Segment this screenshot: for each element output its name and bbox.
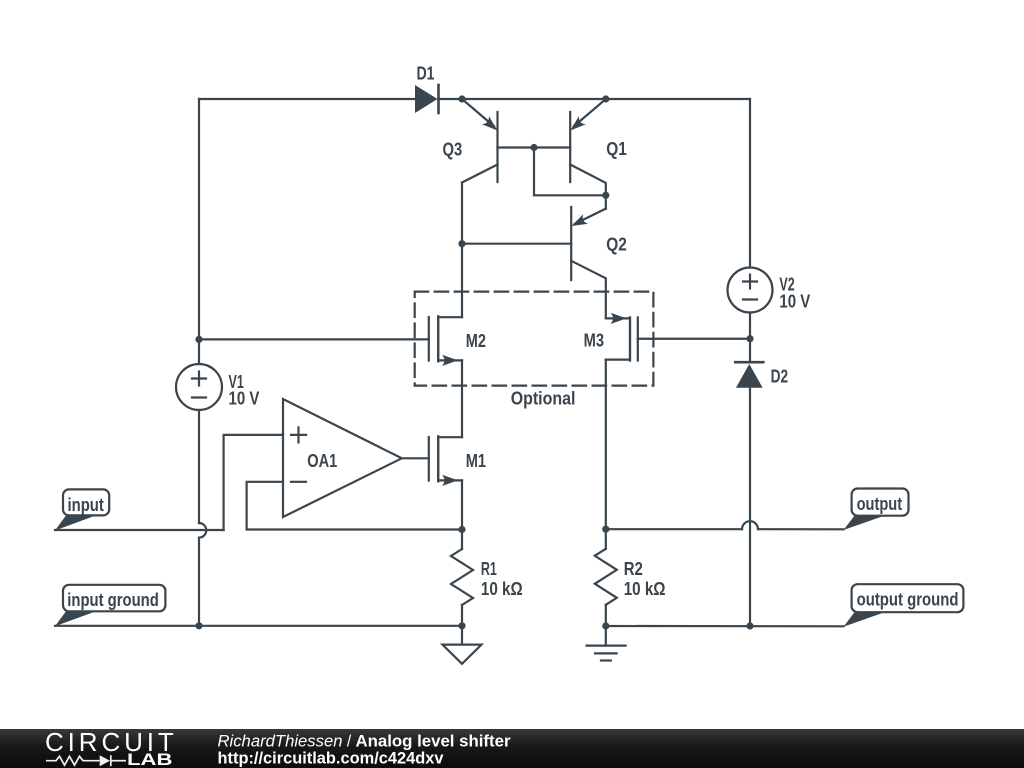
transistor Q2 — [569, 195, 606, 317]
svg-text:D2: D2 — [771, 367, 789, 387]
diode D1 — [415, 85, 439, 113]
wire OA1 output to M1 gate — [402, 457, 429, 459]
node M2 gate tap on left rail — [195, 336, 202, 343]
wire input ground rail — [55, 625, 462, 627]
svg-text:10 V: 10 V — [779, 292, 810, 312]
svg-text:M2: M2 — [466, 331, 486, 351]
svg-text:Q2: Q2 — [606, 235, 627, 255]
transistor Q3 — [462, 99, 501, 183]
ground symbol (triangle) — [443, 626, 482, 664]
node M3 gate tap on right rail — [746, 335, 753, 342]
svg-text:input: input — [68, 495, 104, 515]
wire M3 gate to right rail — [638, 338, 750, 340]
footer branding bar — [0, 729, 1024, 768]
svg-text:output ground: output ground — [857, 590, 959, 610]
flag output ground — [844, 584, 964, 627]
logo resistor+diode glyph — [46, 755, 126, 766]
node output ground / right rail — [746, 622, 753, 629]
node base rail junction — [530, 144, 537, 151]
wire Q3 collector column down to M2 — [461, 183, 463, 318]
node input ground / left rail — [195, 622, 202, 629]
mosfet M2 — [429, 316, 462, 366]
svg-text:10 kΩ: 10 kΩ — [624, 579, 666, 599]
node Q3 emitter junction — [458, 95, 465, 102]
svg-text:http://circuitlab.com/c424dxv: http://circuitlab.com/c424dxv — [218, 749, 445, 768]
flag input ground — [55, 585, 165, 627]
wire top rail left from V1 node to D1 anode — [199, 98, 415, 100]
wire OA1 + input from input net — [224, 435, 283, 530]
node Q1 emitter junction — [602, 95, 609, 102]
svg-text:M3: M3 — [584, 331, 604, 351]
wire M1 source down to R1 node — [461, 480, 463, 529]
svg-text:output: output — [857, 494, 903, 514]
mosfet M1 — [429, 436, 462, 486]
diode D2 — [735, 362, 763, 388]
wire top rail from D1 cathode to right rail — [439, 98, 751, 100]
wire V2 to D2 — [749, 313, 751, 361]
node Q2 base junction — [458, 240, 465, 247]
svg-text:input ground: input ground — [67, 590, 159, 610]
voltage source V1 — [176, 364, 222, 410]
wire left rail below V1 with hop over input wire — [199, 410, 206, 626]
svg-text:10 V: 10 V — [229, 389, 260, 409]
wire Q2 base to M2 drain column — [462, 243, 571, 245]
wire input net from flag — [55, 529, 224, 531]
wire M2 source down to M1 drain — [461, 360, 463, 437]
flag output — [844, 489, 909, 531]
svg-text:M1: M1 — [466, 451, 486, 471]
voltage source V2 — [728, 268, 773, 313]
footer author / title text — [217, 729, 817, 768]
svg-text:Q1: Q1 — [606, 139, 627, 159]
svg-text:OA1: OA1 — [307, 451, 337, 471]
node M1 source / R1 / feedback junction — [458, 526, 465, 533]
mosfet M3 — [606, 313, 638, 361]
wire base rail to Q2 emitter node — [534, 148, 606, 196]
transistor Q1 — [567, 99, 606, 195]
wire OA1 - input feedback from M1 source node — [247, 482, 462, 530]
svg-text:10 kΩ: 10 kΩ — [481, 579, 523, 599]
op-amp OA1 — [283, 399, 402, 517]
svg-text:LAB: LAB — [127, 750, 173, 768]
optional dashed box — [415, 292, 654, 386]
wire right rail from top to V2 — [749, 99, 751, 268]
svg-text:Optional: Optional — [511, 389, 576, 409]
wire left rail top (V1 + up to top rail) — [198, 99, 200, 364]
wire M2 gate to left rail — [199, 338, 429, 340]
wire right rail D2 down to output ground — [749, 388, 751, 626]
svg-text:D1: D1 — [417, 64, 435, 84]
resistor R1 — [451, 530, 473, 626]
wire Q3/Q1 base rail — [498, 146, 571, 148]
svg-text:R1: R1 — [481, 559, 497, 579]
node Q1 collector / Q2 emitter — [602, 192, 609, 199]
resistor R2 — [595, 529, 617, 626]
flag input — [55, 489, 109, 530]
wire output with hop over right rail — [606, 521, 844, 529]
wire M3 source column down to output node — [605, 360, 607, 530]
svg-text:R2: R2 — [624, 559, 643, 579]
svg-text:Q3: Q3 — [443, 139, 463, 159]
node output ground / R2 — [602, 622, 609, 629]
ground symbol (earth) — [587, 626, 626, 661]
wire output ground rail — [606, 625, 844, 627]
node input ground / R1 — [458, 622, 465, 629]
node M3/R2/output junction — [602, 526, 609, 533]
